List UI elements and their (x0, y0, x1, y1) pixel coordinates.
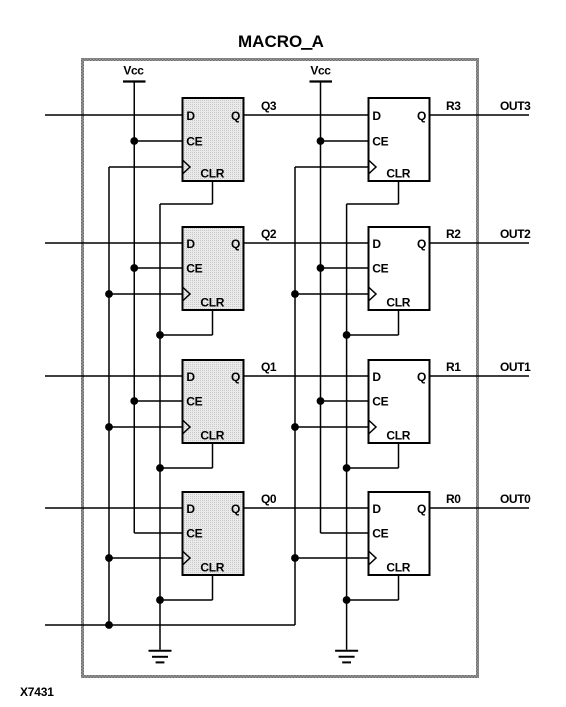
svg-text:Q1: Q1 (261, 360, 277, 374)
wire: node Q1 from left FF3 to right FF3 D (245, 375, 368, 377)
wire: CE branch to right FF2 (321, 267, 368, 269)
svg-text:OUT3: OUT3 (500, 99, 531, 113)
svg-text:CLR: CLR (200, 561, 224, 575)
flip-flop FDCE (left, output Q2) (183, 227, 244, 310)
svg-text:X7431: X7431 (20, 685, 54, 699)
svg-text:D: D (186, 370, 195, 384)
wire: left FF1 CLR return (212, 182, 214, 204)
junction: left Vcc bus / FF2 CE (130, 264, 138, 272)
wire: CE branch to left FF4 (134, 532, 181, 534)
wire: CE branch to left FF1 (134, 140, 181, 142)
wire: clock branch to right FF4 (295, 557, 368, 559)
junction: left clock bus / bottom clock net (105, 621, 113, 629)
wire: left clock bus (108, 167, 110, 625)
ground symbol (left) (149, 651, 172, 663)
wire: output net R2 to OUT2 (431, 242, 530, 244)
wire: right FF3 CLR return (398, 444, 400, 468)
svg-text:Q0: Q0 (261, 492, 277, 506)
junction: left clock bus / FF3 clock (105, 423, 113, 431)
wire: CE branch to right FF3 (321, 400, 368, 402)
wire: output net R1 to OUT1 (431, 375, 530, 377)
wire: clock branch to right FF3 (295, 426, 368, 428)
wire: data input D2 from left edge (45, 242, 182, 244)
junction: right Vcc bus / FF1 CE (317, 137, 325, 145)
svg-text:Q: Q (231, 237, 240, 251)
wire: clock branch to left FF4 (109, 557, 182, 559)
junction: left Vcc bus / FF1 CE (130, 137, 138, 145)
wire: right Vcc/CE bus (320, 82, 322, 534)
junction: left clock bus / FF2 clock (105, 290, 113, 298)
svg-text:CLR: CLR (200, 429, 224, 443)
wire: clock input net along bottom (45, 624, 295, 626)
svg-text:R3: R3 (446, 99, 461, 113)
flip-flop FDCE (right, output R3) (369, 98, 430, 181)
wire: clock branch to left FF2 (109, 293, 182, 295)
junction: right CLR bus / FF3 CLR (343, 464, 351, 472)
svg-text:Q: Q (231, 370, 240, 384)
svg-text:CE: CE (186, 527, 202, 541)
svg-text:R2: R2 (446, 227, 461, 241)
flip-flop FDCE (left, output Q0) (183, 492, 244, 575)
svg-text:D: D (186, 502, 195, 516)
svg-text:Vcc: Vcc (310, 64, 331, 78)
svg-text:D: D (186, 109, 195, 123)
wire: left Vcc/CE bus (133, 82, 135, 534)
svg-text:OUT0: OUT0 (500, 492, 531, 506)
ground symbol (right) (335, 651, 358, 663)
svg-text:R1: R1 (446, 360, 461, 374)
svg-text:Vcc: Vcc (123, 64, 144, 78)
wire: left FF2 CLR return (212, 311, 214, 335)
power symbol Vcc (left) (123, 64, 146, 82)
flip-flop FDCE (left, output Q1) (183, 360, 244, 443)
flip-flop FDCE (right, output R2) (369, 227, 430, 310)
svg-text:CE: CE (372, 395, 388, 409)
svg-text:D: D (186, 237, 195, 251)
wire: CE branch to right FF4 (321, 532, 368, 534)
svg-text:CE: CE (186, 395, 202, 409)
svg-text:R0: R0 (446, 492, 461, 506)
svg-text:CE: CE (372, 262, 388, 276)
wire: CE branch to left FF3 (134, 400, 181, 402)
svg-text:D: D (372, 109, 381, 123)
svg-text:Q: Q (417, 370, 426, 384)
svg-text:OUT1: OUT1 (500, 360, 531, 374)
wire: left CLR bus to ground (159, 204, 161, 650)
wire: output net R3 to OUT3 (431, 114, 530, 116)
svg-text:CLR: CLR (386, 296, 410, 310)
wire: node Q2 from left FF2 to right FF2 D (245, 242, 368, 244)
junction: right clock bus / FF3 clock (291, 423, 299, 431)
svg-text:Q: Q (417, 109, 426, 123)
wire: right CLR bus to ground (346, 204, 348, 650)
svg-text:CLR: CLR (386, 429, 410, 443)
junction: left Vcc bus / FF3 CE (130, 397, 138, 405)
wire: clock branch to right FF2 (295, 293, 368, 295)
flip-flop FDCE (right, output R0) (369, 492, 430, 575)
svg-text:CLR: CLR (386, 167, 410, 181)
wire: CE branch to right FF1 (321, 140, 368, 142)
svg-text:Q3: Q3 (261, 99, 277, 113)
wire: data input D0 from left edge (45, 507, 182, 509)
wire: clock branch to left FF1 (109, 166, 182, 168)
junction: right clock bus / FF4 clock (291, 554, 299, 562)
wire: right FF2 CLR return (398, 311, 400, 335)
wire: left FF4 CLR return (212, 576, 214, 600)
flip-flop FDCE (right, output R1) (369, 360, 430, 443)
svg-text:CE: CE (372, 527, 388, 541)
wire: left FF3 CLR return (212, 444, 214, 468)
wire: right FF4 CLR return (398, 576, 400, 600)
junction: left CLR bus / FF3 CLR (156, 464, 164, 472)
svg-text:OUT2: OUT2 (500, 227, 531, 241)
flip-flop FDCE (left, output Q3) (183, 98, 244, 181)
svg-text:Q: Q (231, 109, 240, 123)
wire: right clock bus (294, 167, 296, 625)
svg-text:Q: Q (231, 502, 240, 516)
junction: left CLR bus / FF4 CLR (156, 596, 164, 604)
macro boundary box (83, 60, 478, 677)
svg-text:Q: Q (417, 237, 426, 251)
junction: left clock bus / FF4 clock (105, 554, 113, 562)
wire: output net R0 to OUT0 (431, 507, 530, 509)
svg-text:D: D (372, 370, 381, 384)
wire: node Q3 from left FF1 to right FF1 D (245, 114, 368, 116)
svg-text:CE: CE (186, 262, 202, 276)
power symbol Vcc (right) (310, 64, 333, 82)
svg-text:CE: CE (372, 135, 388, 149)
svg-text:Q: Q (417, 502, 426, 516)
junction: right CLR bus / FF2 CLR (343, 331, 351, 339)
svg-text:CLR: CLR (386, 561, 410, 575)
junction: left CLR bus / FF2 CLR (156, 331, 164, 339)
junction: right clock bus / FF2 clock (291, 290, 299, 298)
wire: clock branch to right FF1 (295, 166, 368, 168)
wire: data input D1 from left edge (45, 375, 182, 377)
svg-text:Q2: Q2 (261, 227, 277, 241)
svg-text:CLR: CLR (200, 296, 224, 310)
junction: right CLR bus / FF4 CLR (343, 596, 351, 604)
wire: data input D3 from left edge (45, 114, 182, 116)
svg-text:D: D (372, 237, 381, 251)
svg-text:CLR: CLR (200, 167, 224, 181)
wire: right FF1 CLR return (398, 182, 400, 204)
junction: right Vcc bus / FF3 CE (317, 397, 325, 405)
junction: right Vcc bus / FF2 CE (317, 264, 325, 272)
svg-text:CE: CE (186, 135, 202, 149)
svg-text:D: D (372, 502, 381, 516)
wire: node Q0 from left FF4 to right FF4 D (245, 507, 368, 509)
wire: clock branch to left FF3 (109, 426, 182, 428)
wire: CE branch to left FF2 (134, 267, 181, 269)
